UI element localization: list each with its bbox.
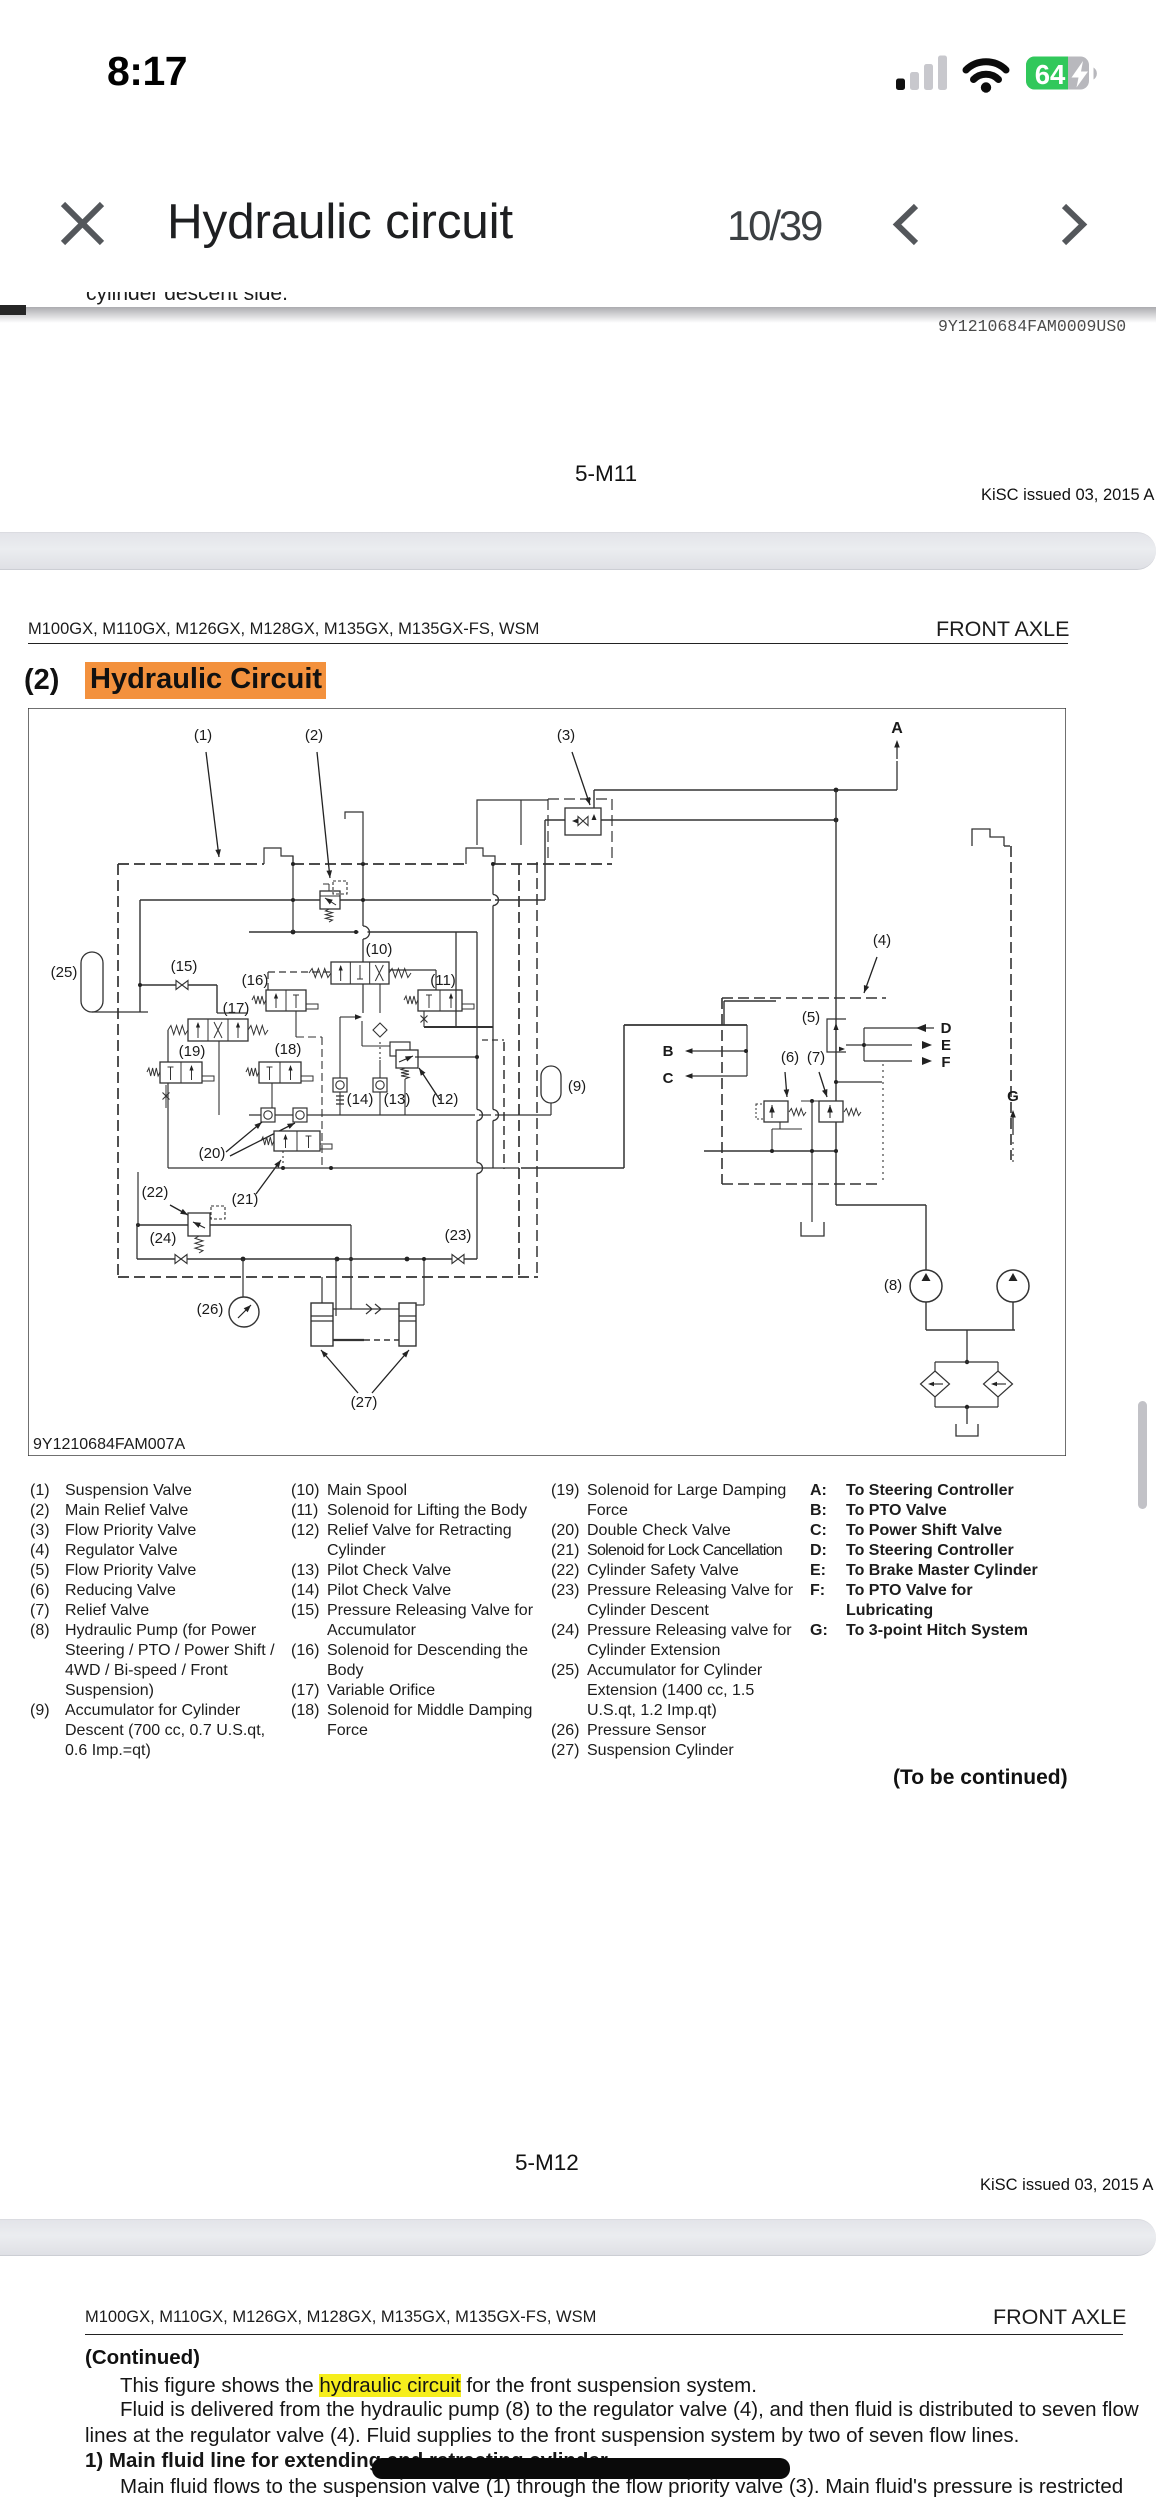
- svg-text:(15): (15): [171, 958, 198, 975]
- svg-text:(27): (27): [351, 1394, 378, 1411]
- svg-text:D: D: [941, 1020, 952, 1037]
- svg-text:(4): (4): [873, 932, 891, 949]
- svg-text:(20): (20): [199, 1145, 226, 1162]
- svg-text:(25): (25): [51, 964, 78, 981]
- svg-text:(5): (5): [802, 1009, 820, 1026]
- svg-text:(23): (23): [445, 1227, 472, 1244]
- svg-text:(21): (21): [232, 1191, 259, 1208]
- svg-text:(13): (13): [384, 1091, 411, 1108]
- svg-text:G: G: [1007, 1088, 1019, 1105]
- svg-text:C: C: [663, 1070, 674, 1087]
- svg-text:(8): (8): [884, 1277, 902, 1294]
- svg-text:F: F: [941, 1054, 950, 1071]
- svg-text:B: B: [663, 1043, 674, 1060]
- svg-text:9Y1210684FAM007A: 9Y1210684FAM007A: [33, 1436, 185, 1453]
- svg-text:(2): (2): [305, 727, 323, 744]
- svg-text:(6): (6): [781, 1049, 799, 1066]
- svg-text:(11): (11): [430, 972, 456, 989]
- svg-text:A: A: [891, 720, 903, 737]
- svg-text:(10): (10): [366, 941, 393, 958]
- svg-text:(18): (18): [275, 1041, 302, 1058]
- svg-text:(24): (24): [150, 1230, 177, 1247]
- svg-text:(14): (14): [347, 1091, 374, 1108]
- svg-text:(1): (1): [194, 727, 212, 744]
- svg-text:E: E: [941, 1037, 951, 1054]
- svg-text:(7): (7): [807, 1049, 825, 1066]
- svg-text:64: 64: [1035, 59, 1066, 90]
- svg-text:(26): (26): [197, 1301, 224, 1318]
- svg-text:(19): (19): [179, 1043, 206, 1060]
- svg-text:(16): (16): [242, 972, 269, 989]
- svg-text:(22): (22): [142, 1184, 169, 1201]
- svg-text:(9): (9): [568, 1078, 586, 1095]
- svg-text:(17): (17): [223, 1000, 250, 1017]
- svg-text:(3): (3): [557, 727, 575, 744]
